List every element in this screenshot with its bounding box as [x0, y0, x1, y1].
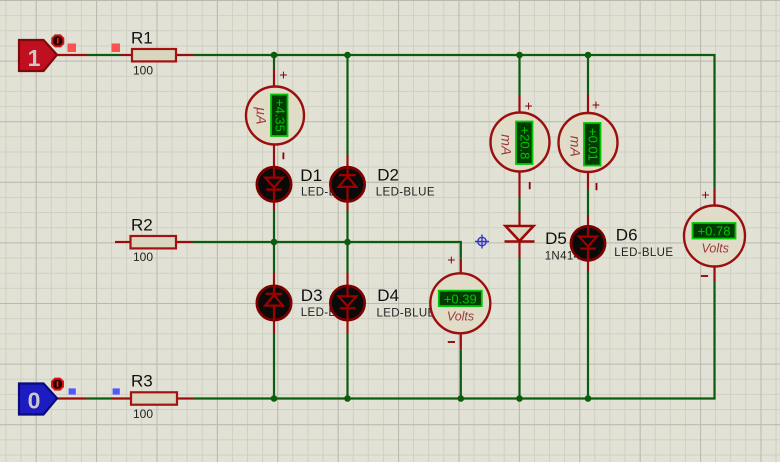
LED D2 [330, 167, 364, 202]
svg-text:LED-BLUE: LED-BLUE [377, 308, 436, 320]
svg-text:+20.8: +20.8 [518, 127, 533, 160]
ammeter mA2 (+0.01) [559, 113, 618, 172]
resistor R2 [131, 236, 177, 248]
svg-text:+0.39: +0.39 [444, 291, 477, 306]
wire: top rail green from R1 to right edge corner down [193, 55, 715, 189]
wire: D2 bottom lead (red) [346, 202, 348, 211]
svg-text:R1: R1 [131, 29, 153, 48]
wire: bottom rail green from R3 to right edge corner up [193, 281, 715, 399]
wire: column A green to middle rail [273, 211, 275, 243]
wire: R2 right lead (red) [176, 241, 193, 243]
wire: terminal 1 to R1 (green) [87, 54, 121, 56]
svg-text:Volts: Volts [447, 310, 474, 324]
wire: D5 top lead (red) [518, 212, 520, 226]
wire: column D green to bottom rail [518, 258, 520, 399]
wire: D6 bottom lead (red) [587, 261, 589, 273]
resistor R3 [131, 392, 177, 404]
wire: D3 top lead (red) [273, 273, 275, 286]
svg-text:1: 1 [28, 45, 41, 71]
wire: column B green below middle rail [346, 242, 348, 273]
wire: column A green below middle rail [273, 242, 275, 273]
svg-text:0: 0 [28, 387, 41, 413]
svg-text:100: 100 [133, 64, 153, 78]
junction: bottom rail at column C [458, 395, 465, 402]
voltmeter mid (+0.39) [430, 273, 490, 333]
junction: bottom rail at column A [271, 395, 278, 402]
svg-text:D3: D3 [301, 286, 323, 305]
svg-text:+: + [592, 97, 600, 113]
label - (mA2 meter) [596, 183, 598, 190]
origin crosshair marker [475, 235, 489, 249]
wire: D1 bottom lead (red) [273, 202, 275, 211]
LED D1 [257, 167, 291, 203]
LED D3 [257, 286, 291, 321]
wire: middle rail green from R2 to voltmeter column [193, 242, 461, 259]
svg-text:D5: D5 [545, 229, 567, 248]
wire: column B green to middle rail [346, 211, 348, 243]
voltmeter right (+0.78) [684, 206, 745, 267]
pin marker (R3 left pin) [113, 388, 120, 394]
wire: ammeter uA bottom lead to D1 (red) [273, 145, 275, 167]
junction: top rail at column B [344, 52, 351, 59]
origin marker (terminal 0) [52, 379, 63, 390]
svg-text:100: 100 [133, 407, 153, 421]
wire: column A green to bottom rail [273, 333, 275, 399]
svg-text:D1: D1 [300, 166, 322, 185]
svg-text:LED-BLUE: LED-BLUE [614, 247, 673, 259]
wire: voltmeter right bottom lead (red) [713, 266, 715, 281]
LED D4 [330, 285, 364, 321]
svg-text:100: 100 [133, 250, 153, 264]
wire: ammeter mA1 bottom lead (red) [518, 172, 520, 199]
LED D6 [571, 226, 605, 261]
wire: D4 top lead (red) [346, 273, 348, 286]
wire: voltmeter right top lead (red) [713, 189, 715, 206]
svg-text:LED-BLUE: LED-BLUE [376, 186, 435, 198]
svg-text:mA: mA [499, 134, 515, 155]
wire: terminal 0 stub (red) [56, 397, 87, 399]
svg-text:R2: R2 [131, 216, 153, 235]
svg-text:µA: µA [254, 107, 270, 124]
terminal 0 [19, 384, 57, 415]
label - (mA1 meter) [529, 182, 531, 189]
diode D5 [505, 226, 535, 242]
origin marker (terminal 1) [52, 35, 63, 46]
wire: column E green from top rail [587, 55, 589, 95]
wire: R3 left lead (red) [112, 397, 131, 399]
junction: bottom rail at column B [344, 395, 351, 402]
junction: top rail at column D [516, 52, 523, 59]
junction: top rail at column A [271, 52, 278, 59]
svg-text:+0.78: +0.78 [698, 224, 731, 239]
resistor R1 [132, 49, 176, 61]
wire: D2 top lead (red) [346, 155, 348, 167]
junction: bottom rail at column E [585, 395, 592, 402]
wire: ammeter mA1 top lead (red) [518, 96, 520, 114]
svg-text:D4: D4 [377, 286, 399, 305]
svg-text:+4.35: +4.35 [273, 99, 288, 132]
label - (uA meter) [282, 153, 284, 160]
pin marker (terminal 1 pin) [68, 44, 77, 53]
junction: middle rail at column A [271, 239, 278, 246]
ammeter U uA (+4.35) [246, 87, 304, 145]
wire: R1 right lead (red) [176, 54, 193, 56]
wire: column D green above D5 [518, 198, 520, 212]
pin marker (R1 left pin) [112, 44, 121, 53]
wire: R2 left stub (red) [115, 241, 131, 243]
wire: column E green above D6 [587, 190, 589, 215]
label - (voltmeter mid) [448, 341, 455, 343]
svg-text:R3: R3 [131, 372, 153, 391]
wire: D4 bottom lead (red) [346, 321, 348, 334]
wire: column B green from top rail [346, 55, 348, 155]
wire: column E green to bottom rail [587, 272, 589, 399]
svg-text:mA: mA [568, 136, 584, 157]
wire: R3 right lead (red) [177, 397, 193, 399]
svg-text:D6: D6 [616, 225, 638, 244]
svg-text:Volts: Volts [702, 241, 729, 255]
ammeter mA1 (+20.8) [491, 113, 550, 172]
wire: D6 top lead (red) [587, 215, 589, 226]
wire: voltmeter mid top lead (red) [460, 259, 462, 274]
svg-text:+: + [279, 66, 287, 82]
label - (voltmeter right) [701, 275, 708, 277]
svg-text:+0.01: +0.01 [586, 128, 601, 161]
svg-text:+: + [525, 98, 533, 114]
wire: voltmeter mid bottom lead (red) [460, 333, 462, 349]
wire: column A top green [273, 55, 275, 70]
junction: top rail at column E [585, 52, 592, 59]
junction: bottom rail at column D [516, 395, 523, 402]
wire: column B green to bottom rail [346, 333, 348, 399]
pin marker (terminal 0 pin) [69, 388, 76, 394]
svg-text:+: + [447, 252, 455, 268]
junction: middle rail at column B [344, 239, 351, 246]
svg-text:+: + [701, 187, 709, 203]
wire: terminal 1 stub (red) [56, 54, 87, 56]
wire: column C green to bottom rail [460, 349, 462, 398]
wire: D3 bottom lead (red) [273, 321, 275, 334]
wire: ammeter mA2 bottom lead (red) [587, 172, 589, 191]
wire: column D green from top rail [518, 55, 520, 96]
wire: R1 left lead (red) [121, 54, 133, 56]
wire: terminal 0 to R3 (green) [87, 397, 113, 399]
wire: D5 bottom lead (red) [518, 242, 520, 259]
svg-text:D2: D2 [377, 166, 399, 185]
terminal 1 [19, 40, 57, 71]
wire: ammeter mA2 top lead (red) [587, 95, 589, 114]
wire: ammeter uA top lead (red) [273, 70, 275, 87]
